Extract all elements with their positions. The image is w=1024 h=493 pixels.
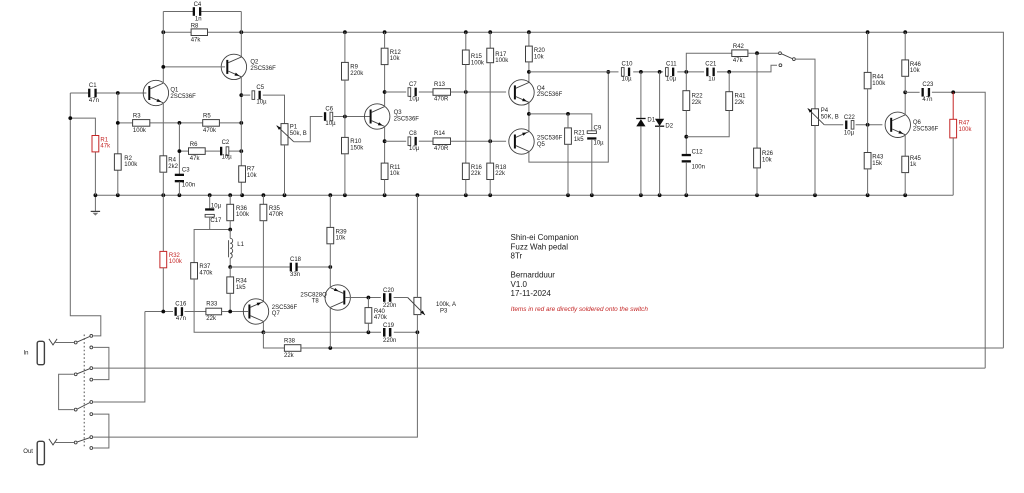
- svg-text:10k: 10k: [910, 68, 921, 74]
- svg-text:C21: C21: [705, 62, 717, 68]
- svg-text:Items in red are directly sold: Items in red are directly soldered onto …: [511, 306, 649, 313]
- wire Q5 collector loop: [529, 72, 608, 162]
- svg-text:L1: L1: [237, 242, 244, 248]
- transistor Q1: [143, 80, 168, 105]
- junction on ground rail: [464, 193, 468, 197]
- svg-text:C19: C19: [383, 323, 395, 329]
- wire Q3 emitter: [384, 126, 386, 163]
- svg-text:C2: C2: [222, 140, 230, 146]
- node input: vertical to footswitch: [70, 93, 101, 336]
- svg-text:47k: 47k: [100, 144, 111, 150]
- svg-text:1k: 1k: [910, 162, 917, 168]
- svg-text:Q7: Q7: [272, 311, 281, 317]
- resistor R14: [433, 138, 451, 145]
- svg-text:In: In: [24, 351, 29, 357]
- svg-text:2SC828Q: 2SC828Q: [300, 292, 327, 298]
- svg-text:100k: 100k: [471, 60, 485, 66]
- wire bracket pole3B-pole4B: [93, 414, 109, 448]
- potentiometer P4 50K B: [812, 109, 819, 126]
- svg-text:10µ: 10µ: [844, 131, 855, 137]
- svg-text:R45: R45: [910, 156, 922, 162]
- svg-text:10µ: 10µ: [594, 141, 605, 147]
- svg-text:C12: C12: [692, 150, 704, 156]
- svg-text:10k: 10k: [762, 157, 773, 163]
- svg-text:2SC536F: 2SC536F: [913, 126, 939, 132]
- potentiometer P3 100k A: [414, 297, 421, 314]
- svg-text:R42: R42: [733, 44, 745, 50]
- svg-text:22k: 22k: [735, 100, 746, 106]
- svg-text:47n: 47n: [89, 98, 99, 104]
- wire output from C23 to footswitch: [93, 367, 985, 369]
- svg-text:220k: 220k: [350, 71, 364, 77]
- svg-text:47k: 47k: [190, 156, 201, 162]
- svg-text:Fuzz Wah pedal: Fuzz Wah pedal: [511, 242, 569, 251]
- svg-text:Q5: Q5: [537, 142, 546, 148]
- svg-text:R12: R12: [390, 50, 402, 56]
- junction on +V rail: [343, 30, 347, 34]
- svg-text:R41: R41: [735, 94, 747, 100]
- svg-text:10µ: 10µ: [409, 97, 420, 103]
- svg-text:C6: C6: [325, 106, 333, 112]
- svg-text:R6: R6: [190, 142, 198, 148]
- svg-text:2SC536F: 2SC536F: [537, 92, 563, 98]
- junction on ground rail: [161, 193, 165, 197]
- resistor R38: [284, 345, 301, 352]
- ground symbol: [94, 195, 96, 211]
- resistor R16: [465, 92, 467, 163]
- junction on ground rail: [383, 193, 387, 197]
- svg-text:50k, B: 50k, B: [290, 131, 307, 137]
- junction on ground rail: [488, 193, 492, 197]
- resistor R36: [229, 195, 231, 204]
- resistor R4: [160, 156, 167, 172]
- svg-text:C22: C22: [844, 115, 856, 121]
- junction on +V rail: [488, 30, 492, 34]
- svg-text:R13: R13: [434, 82, 446, 88]
- wire signal bus y72: [529, 71, 619, 73]
- svg-text:T8: T8: [312, 299, 320, 305]
- svg-text:1k5: 1k5: [236, 285, 246, 291]
- resistor R9: [344, 32, 346, 62]
- svg-text:R38: R38: [284, 339, 296, 345]
- svg-text:R15: R15: [471, 54, 483, 60]
- svg-text:C18: C18: [290, 257, 302, 263]
- capacitor C9: [587, 131, 596, 134]
- junction on +V rail: [383, 30, 387, 34]
- svg-text:C9: C9: [594, 126, 602, 132]
- capacitor C5: [241, 94, 250, 96]
- wire fuzz-in from footswitch: [93, 312, 145, 403]
- svg-text:Q2: Q2: [250, 60, 259, 66]
- resistor R8: [191, 29, 207, 36]
- svg-text:10k: 10k: [390, 171, 401, 177]
- capacitor C22: [824, 124, 843, 126]
- wire P1 wiper to C6: [294, 117, 323, 142]
- junction on ground rail: [262, 193, 266, 197]
- resistor R3: [133, 120, 150, 127]
- wire R21/C9 node: [529, 114, 592, 131]
- capacitor C11: [666, 68, 669, 77]
- svg-text:10µ: 10µ: [622, 77, 633, 83]
- wire T8 emitter riser: [329, 267, 331, 288]
- resistor R46: [904, 32, 906, 60]
- svg-text:8Tr: 8Tr: [511, 252, 523, 261]
- resistor R12: [381, 48, 388, 64]
- svg-text:22k: 22k: [471, 171, 482, 177]
- svg-text:47k: 47k: [191, 38, 202, 44]
- svg-text:470k: 470k: [374, 315, 388, 321]
- svg-text:10k: 10k: [336, 236, 347, 242]
- junction on ground rail: [343, 193, 347, 197]
- resistor R45: [902, 156, 909, 172]
- svg-text:Q1: Q1: [170, 88, 179, 94]
- junction on ground rail: [208, 193, 212, 197]
- svg-text:15k: 15k: [872, 161, 883, 167]
- resistor R44: [867, 32, 869, 72]
- svg-text:100k, A: 100k, A: [436, 302, 456, 308]
- svg-text:100k: 100k: [495, 58, 509, 64]
- wire T8 collector drop: [329, 307, 331, 348]
- wire R14 to Q5 base: [451, 140, 507, 142]
- resistor R33: [206, 308, 222, 315]
- wire R6 branch riser: [178, 123, 180, 175]
- junction on +V rail: [903, 30, 907, 34]
- svg-text:2SC536F: 2SC536F: [537, 136, 563, 142]
- svg-text:100n: 100n: [692, 165, 705, 171]
- output jack Out: [37, 441, 44, 464]
- footswitch pole 2: [74, 373, 77, 376]
- resistor R2: [117, 93, 119, 154]
- svg-text:10k: 10k: [390, 56, 401, 62]
- resistor R43: [867, 125, 869, 153]
- svg-text:C8: C8: [409, 131, 417, 137]
- svg-text:10µ: 10µ: [409, 146, 420, 152]
- svg-text:1n: 1n: [195, 17, 202, 23]
- svg-text:Shin-ei Companion: Shin-ei Companion: [511, 233, 579, 242]
- resistor R17: [489, 32, 491, 48]
- svg-text:100k: 100k: [872, 81, 886, 87]
- svg-text:2SC536F: 2SC536F: [250, 66, 276, 72]
- resistor R42: [686, 53, 732, 72]
- resistor R32 (red): [162, 195, 164, 251]
- wire Q6 emitter: [904, 135, 906, 157]
- svg-text:470R: 470R: [434, 97, 449, 103]
- wire link pole2-pole3 commons: [59, 374, 74, 409]
- svg-text:10µ: 10µ: [256, 100, 267, 106]
- svg-text:1u: 1u: [708, 77, 715, 83]
- capacitor C3: [175, 174, 184, 176]
- resistor R40: [367, 298, 369, 308]
- junction on ground rail: [240, 193, 244, 197]
- wire bracket pole1B-pole2B: [93, 347, 109, 379]
- wire fuzz input line: [145, 311, 173, 313]
- svg-text:100k: 100k: [236, 212, 250, 218]
- resistor R41: [728, 72, 730, 92]
- svg-text:C10: C10: [622, 62, 634, 68]
- wire +V top rail: [163, 31, 191, 33]
- inductor L1: [229, 230, 231, 239]
- svg-text:220n: 220n: [383, 338, 396, 344]
- svg-text:22k: 22k: [692, 100, 703, 106]
- junction on +V rail: [239, 30, 243, 34]
- svg-text:P4: P4: [821, 108, 829, 114]
- svg-text:R16: R16: [471, 165, 483, 171]
- junction on ground rail: [283, 193, 287, 197]
- svg-text:R20: R20: [534, 48, 546, 54]
- transistor Q6: [885, 112, 910, 137]
- svg-text:R5: R5: [203, 114, 211, 120]
- resistor R6: [179, 150, 188, 152]
- wire R38 branch: [263, 332, 284, 348]
- resistor R11: [381, 163, 388, 179]
- resistor R15: [465, 32, 467, 50]
- svg-text:C17: C17: [210, 218, 222, 224]
- svg-text:P3: P3: [440, 308, 448, 314]
- transistor Q3: [365, 104, 390, 129]
- junction on +V rail: [866, 30, 870, 34]
- wire P3 top to ground rail: [416, 195, 418, 297]
- svg-text:R14: R14: [434, 131, 446, 137]
- svg-text:Q6: Q6: [913, 120, 922, 126]
- svg-text:10µ: 10µ: [325, 121, 336, 127]
- resistor R37: [191, 263, 198, 279]
- svg-text:22k: 22k: [206, 316, 217, 322]
- wire Q1 collector riser with C4/R8: [162, 12, 164, 84]
- svg-text:D1: D1: [647, 117, 655, 123]
- resistor R21: [565, 128, 572, 144]
- wire L1/C18 node: [230, 266, 290, 268]
- wire Q2 base from Q1 collector: [163, 66, 225, 68]
- svg-text:10µ: 10µ: [666, 77, 677, 83]
- capacitor C7: [385, 91, 407, 93]
- wire Q4 emitter / Q5 emitter node: [528, 102, 530, 131]
- resistor R5: [203, 120, 220, 127]
- svg-text:47n: 47n: [176, 316, 186, 322]
- svg-text:R26: R26: [762, 151, 774, 157]
- resistor R13: [433, 89, 451, 96]
- footswitch pole 3: [74, 408, 77, 411]
- svg-text:R17: R17: [495, 52, 507, 58]
- svg-text:22k: 22k: [284, 353, 295, 359]
- junction on ground rail: [813, 193, 817, 197]
- svg-text:Q3: Q3: [394, 110, 403, 116]
- wire Q1 emitter to R4: [162, 103, 164, 156]
- bypass switch contacts (top): [779, 52, 782, 55]
- resistor R18: [489, 141, 491, 163]
- footswitch pole 4: [74, 441, 77, 444]
- svg-text:2k2: 2k2: [168, 164, 178, 170]
- junction on +V rail: [527, 30, 531, 34]
- capacitor C20: [383, 293, 386, 302]
- svg-text:R37: R37: [199, 264, 211, 270]
- svg-text:R18: R18: [495, 165, 507, 171]
- input jack In: [37, 341, 44, 364]
- svg-text:33n: 33n: [290, 272, 300, 278]
- svg-text:2SC536F: 2SC536F: [170, 94, 196, 100]
- svg-text:10k: 10k: [534, 54, 545, 60]
- resistor R39: [329, 195, 331, 227]
- svg-text:1k5: 1k5: [574, 137, 584, 143]
- svg-text:470k: 470k: [199, 270, 213, 276]
- svg-text:R40: R40: [374, 309, 386, 315]
- svg-text:R2: R2: [124, 156, 132, 162]
- wire collector bus y332: [263, 331, 381, 333]
- svg-text:Bernardduur: Bernardduur: [511, 271, 556, 280]
- resistor R35: [262, 195, 264, 204]
- svg-text:R22: R22: [692, 94, 704, 100]
- junction on ground rail: [755, 193, 759, 197]
- svg-text:C1: C1: [89, 83, 97, 89]
- transistor Q4: [509, 80, 534, 105]
- svg-text:R44: R44: [872, 75, 884, 81]
- svg-text:C7: C7: [409, 82, 417, 88]
- svg-text:R34: R34: [236, 279, 248, 285]
- junction on +V rail: [464, 30, 468, 34]
- wire ground bottom rail: [95, 194, 953, 196]
- wire T8 base to C20 node: [345, 297, 381, 299]
- junction on ground rail: [639, 193, 643, 197]
- svg-text:100k: 100k: [133, 128, 147, 134]
- wire Q6 collector: [904, 92, 906, 115]
- wire +V feed line y348: [301, 347, 1004, 349]
- capacitor C21: [706, 68, 708, 77]
- svg-text:17-11-2024: 17-11-2024: [511, 289, 552, 298]
- diode D1: [640, 72, 642, 119]
- junction on ground rail: [328, 193, 332, 197]
- svg-text:470R: 470R: [434, 146, 449, 152]
- svg-text:100k: 100k: [169, 259, 183, 265]
- wire Q2 collector riser: [240, 12, 242, 58]
- junction on ground rail: [416, 193, 420, 197]
- mechanical link (dashed): [83, 335, 85, 449]
- svg-text:R4: R4: [168, 158, 176, 164]
- junction on ground rail: [228, 193, 232, 197]
- svg-text:R9: R9: [350, 65, 358, 71]
- svg-text:470k: 470k: [203, 128, 217, 134]
- svg-text:C20: C20: [383, 288, 395, 294]
- capacitor C19: [383, 328, 386, 337]
- resistor R47 (red): [952, 92, 954, 119]
- svg-text:P1: P1: [290, 125, 298, 131]
- diode D2: [659, 72, 661, 119]
- capacitor C2: [228, 150, 241, 152]
- svg-text:10µ: 10µ: [222, 155, 233, 161]
- svg-text:22k: 22k: [495, 171, 506, 177]
- resistor R20: [528, 32, 530, 46]
- wire Q3 collector riser: [384, 65, 386, 107]
- resistor R10: [344, 117, 346, 138]
- svg-text:R39: R39: [336, 229, 348, 235]
- capacitor C17: [209, 195, 211, 209]
- svg-text:C16: C16: [175, 301, 187, 307]
- svg-text:47k: 47k: [733, 58, 744, 64]
- svg-text:R36: R36: [236, 206, 248, 212]
- capacitor C4: [163, 11, 193, 13]
- capacitor C23: [905, 91, 919, 93]
- svg-text:47n: 47n: [922, 97, 932, 103]
- junction on +V rail: [161, 30, 165, 34]
- capacitor C16: [175, 307, 177, 316]
- wire R13 to Q4 base: [451, 91, 507, 93]
- svg-text:R33: R33: [206, 301, 218, 307]
- potentiometer P1 50k B: [281, 124, 288, 145]
- svg-text:10µ: 10µ: [211, 203, 222, 209]
- wire C17/R36 node to R37: [194, 230, 230, 263]
- transistor T8: [325, 285, 350, 310]
- wire Q7 collector down: [262, 321, 264, 332]
- svg-text:R10: R10: [350, 139, 362, 145]
- svg-text:Out: Out: [23, 449, 33, 455]
- svg-text:R43: R43: [872, 155, 884, 161]
- junction on ground rail: [684, 193, 688, 197]
- svg-text:R35: R35: [269, 206, 281, 212]
- svg-text:R47: R47: [959, 121, 971, 127]
- junction C1/Q1 base: [116, 91, 120, 95]
- capacitor C1: [70, 92, 89, 94]
- svg-text:10k: 10k: [247, 173, 258, 179]
- capacitor C6: [334, 116, 370, 118]
- footswitch pole 1: [74, 341, 77, 344]
- svg-text:Q4: Q4: [537, 86, 546, 92]
- svg-text:C3: C3: [182, 167, 190, 173]
- transistor Q7: [243, 299, 268, 324]
- svg-text:R32: R32: [169, 253, 181, 259]
- capacitor C18: [290, 263, 292, 272]
- svg-text:2SC536F: 2SC536F: [272, 305, 298, 311]
- node R3/R5 bias line: [118, 122, 133, 124]
- svg-text:100n: 100n: [182, 183, 195, 189]
- capacitor C8: [385, 140, 407, 142]
- junction on ground rail: [658, 193, 662, 197]
- svg-text:470R: 470R: [269, 212, 284, 218]
- wire P3 bottom to footswitch: [93, 315, 417, 438]
- junction on ground rail: [866, 193, 870, 197]
- svg-text:R46: R46: [910, 62, 922, 68]
- svg-text:100k: 100k: [959, 127, 973, 133]
- resistor R7: [239, 166, 246, 182]
- svg-text:V1.0: V1.0: [511, 280, 528, 289]
- svg-text:R1: R1: [100, 137, 108, 143]
- svg-text:D2: D2: [665, 123, 673, 129]
- resistor R34: [229, 267, 231, 277]
- resistor R22: [685, 72, 687, 91]
- svg-text:R21: R21: [574, 131, 586, 137]
- transistor Q5: [509, 129, 534, 154]
- junction on ground rail: [903, 193, 907, 197]
- capacitor C10: [621, 68, 624, 77]
- svg-text:R11: R11: [390, 165, 401, 171]
- svg-text:C23: C23: [922, 82, 934, 88]
- svg-text:100k: 100k: [124, 162, 138, 168]
- svg-text:150k: 150k: [350, 146, 364, 152]
- junction on ground rail: [566, 193, 570, 197]
- svg-text:C4: C4: [194, 2, 202, 8]
- svg-text:R8: R8: [191, 24, 199, 30]
- svg-text:C5: C5: [256, 85, 264, 91]
- junction on ground rail: [590, 193, 594, 197]
- svg-text:C11: C11: [666, 62, 677, 68]
- transistor Q2: [221, 54, 246, 79]
- svg-text:220n: 220n: [383, 303, 396, 309]
- svg-text:2SC536F: 2SC536F: [394, 116, 420, 122]
- svg-text:50K, B: 50K, B: [821, 115, 839, 121]
- junction on ground rail: [116, 193, 120, 197]
- wire Q2 emitter chain: [240, 77, 242, 166]
- resistor R1 (red): [70, 118, 95, 135]
- junction on ground rail: [178, 193, 182, 197]
- svg-text:R3: R3: [133, 114, 141, 120]
- svg-text:R7: R7: [247, 167, 255, 173]
